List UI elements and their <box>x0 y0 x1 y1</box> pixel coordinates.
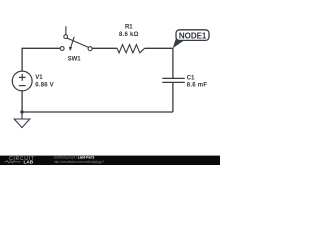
svg-text:8.6 kΩ: 8.6 kΩ <box>119 32 139 38</box>
svg-text:LAB: LAB <box>24 160 34 165</box>
capacitor C1 <box>162 78 185 82</box>
svg-text:8.6 mF: 8.6 mF <box>187 83 208 89</box>
wire V1 top to switch left terminal <box>22 48 60 71</box>
resistor R1 <box>117 45 145 53</box>
svg-text:C1: C1 <box>187 76 195 82</box>
wire switch right terminal to R1 <box>92 47 117 49</box>
ground <box>14 112 30 128</box>
wire R1 to node corner and down to C1 top <box>145 48 173 78</box>
wire bottom rail <box>22 111 173 113</box>
svg-text:NODE1: NODE1 <box>179 31 207 40</box>
voltage source V1 <box>12 71 32 91</box>
node NODE1 flag <box>173 30 209 49</box>
footer logo zigzag <box>5 161 21 163</box>
svg-text:R1: R1 <box>125 24 133 30</box>
svg-text:V1: V1 <box>35 75 43 81</box>
switch SW1 <box>60 26 92 51</box>
junction dot <box>20 110 23 113</box>
svg-text:SW1: SW1 <box>68 56 82 62</box>
wire C1 bottom to bottom rail <box>172 83 174 113</box>
footer bar <box>0 156 220 165</box>
svg-text:6.86 V: 6.86 V <box>35 83 54 89</box>
svg-text:http://circuitlab.com/cmb6a3g6: http://circuitlab.com/cmb6a3g6ggz7 <box>54 160 104 164</box>
wire V1 bottom to rail <box>21 91 23 112</box>
